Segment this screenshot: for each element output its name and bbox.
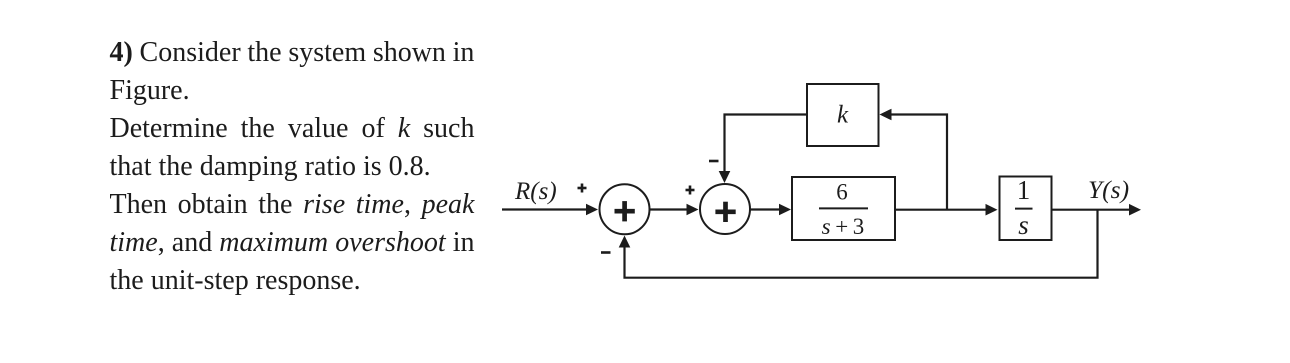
- wire block k output down to S2: [725, 115, 808, 173]
- svg-text:1: 1: [1017, 175, 1031, 205]
- arrowhead into G2: [986, 204, 998, 216]
- arrowhead into S2: [687, 204, 699, 216]
- sign + at S2 input: [686, 186, 695, 195]
- arrowhead output Y(s): [1129, 204, 1141, 216]
- arrowhead into G1: [779, 204, 791, 216]
- arrowhead into S1 bottom (pointing up): [619, 236, 631, 248]
- block k: [807, 84, 879, 146]
- wire G1 output to block G2 with takeoff node: [895, 209, 987, 211]
- block G1 transfer function 6/(s+3): [792, 177, 895, 240]
- wire S1 to S2: [650, 208, 689, 210]
- arrowhead into block k (pointing left): [880, 109, 892, 121]
- svg-text:R(s): R(s): [514, 178, 557, 205]
- problem statement text: [110, 34, 475, 300]
- svg-text:6: 6: [836, 179, 848, 204]
- wire G2 output to Y(s): [1052, 209, 1130, 211]
- wire inner feedback takeoff up to block k input: [892, 115, 948, 210]
- wire outer feedback from output node down and back to S1: [625, 210, 1098, 278]
- wire input R(s) to summing junction S1: [502, 208, 587, 210]
- svg-text:s + 3: s + 3: [822, 214, 865, 239]
- block G2 integrator 1/s: [1000, 175, 1052, 240]
- sign - at S2 top input: [709, 160, 719, 163]
- wire S2 to block G1: [750, 208, 781, 210]
- sign + at S1 input: [578, 184, 587, 193]
- svg-text:s: s: [1018, 210, 1029, 240]
- svg-text:k: k: [837, 102, 849, 129]
- arrowhead into S2 top (pointing down): [719, 171, 731, 183]
- sign - at S1 bottom input: [601, 251, 611, 254]
- summing junction S1: [600, 184, 650, 234]
- summing junction S2: [700, 184, 750, 234]
- svg-text:Y(s): Y(s): [1088, 175, 1129, 204]
- arrowhead into S1: [586, 204, 598, 216]
